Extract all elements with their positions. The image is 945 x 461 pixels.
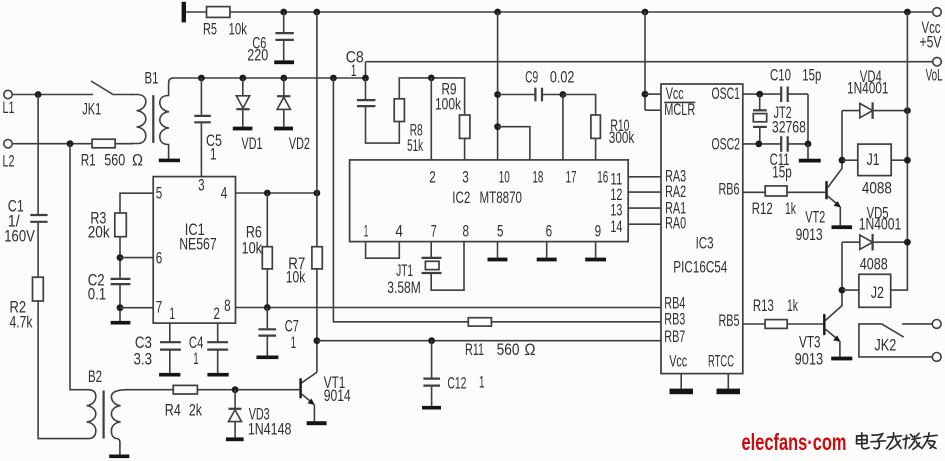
wire: Vcc pin stub bbox=[645, 93, 661, 95]
svg-text:JK2: JK2 bbox=[874, 336, 896, 354]
resistor R4 bbox=[173, 385, 197, 394]
wire: right vertical from top rail bbox=[891, 12, 908, 290]
svg-text:VT2: VT2 bbox=[805, 209, 825, 227]
svg-text:1: 1 bbox=[193, 350, 199, 368]
ground: VD2 bbox=[274, 127, 293, 131]
wire: IC1 pin6 bbox=[120, 257, 153, 259]
svg-text:L2: L2 bbox=[3, 153, 15, 171]
svg-text:15p: 15p bbox=[802, 66, 821, 84]
terminal: Vcc +5V bbox=[933, 8, 942, 17]
svg-text:10k: 10k bbox=[286, 269, 306, 287]
svg-text:3: 3 bbox=[462, 169, 469, 187]
ground: C3 bbox=[159, 373, 180, 377]
svg-text:3.58M: 3.58M bbox=[387, 279, 421, 297]
resistor R8 bbox=[394, 99, 404, 122]
node: VT2 collector / J1 junction bbox=[839, 157, 846, 164]
ground: OSC bbox=[799, 159, 821, 163]
diode VD3 bbox=[234, 390, 236, 409]
wire: IC2 pin12 to IC3 RA2 bbox=[628, 191, 661, 193]
capacitor C11 bbox=[780, 136, 782, 152]
ground: VT1 emitter bbox=[307, 421, 327, 425]
svg-text:RB7: RB7 bbox=[664, 328, 685, 346]
svg-text:L1: L1 bbox=[3, 99, 15, 117]
wire: JK1 to B1 primary top bbox=[113, 94, 134, 96]
wire: IC2 pin11 to IC3 RA3 bbox=[628, 176, 661, 178]
svg-text:1: 1 bbox=[210, 146, 217, 164]
transformer B2 secondary bbox=[111, 390, 128, 455]
node: R11 column on rail bbox=[330, 75, 337, 82]
svg-text:C9: C9 bbox=[525, 69, 538, 87]
svg-text:16: 16 bbox=[597, 169, 608, 187]
switch JK2 bbox=[859, 324, 932, 357]
svg-text:4088: 4088 bbox=[860, 256, 888, 274]
node: RB7 line at collector column bbox=[314, 337, 321, 344]
svg-text:Ω: Ω bbox=[525, 341, 536, 359]
svg-text:RB5: RB5 bbox=[719, 312, 740, 330]
svg-text:1: 1 bbox=[351, 62, 357, 80]
svg-text:R13: R13 bbox=[753, 297, 774, 315]
node: pin18 line junction bbox=[494, 123, 501, 130]
resistor R12 bbox=[765, 186, 787, 196]
svg-text:15p: 15p bbox=[772, 164, 792, 182]
wire: IC1 pin5 bbox=[120, 193, 153, 213]
svg-text:18: 18 bbox=[532, 169, 543, 187]
ground: VT2 emitter bbox=[832, 225, 853, 229]
resistor R11 bbox=[468, 318, 491, 326]
svg-text:1N4001: 1N4001 bbox=[847, 80, 889, 98]
node: pin7 junction bbox=[117, 304, 124, 311]
node: VT3 collector / J2 junction bbox=[839, 287, 846, 294]
svg-text:RA2: RA2 bbox=[665, 183, 686, 201]
ground: IC3 Vcc bbox=[670, 389, 694, 395]
transformer B2 primary bbox=[87, 390, 96, 439]
wire: R12 to VT2 base bbox=[787, 191, 825, 193]
logo: Chinese character shao bbox=[903, 433, 921, 449]
svg-text:5: 5 bbox=[497, 222, 504, 240]
wire: top +5V rail bbox=[186, 11, 933, 13]
svg-text:1: 1 bbox=[364, 222, 369, 240]
diode VD1 bbox=[242, 78, 244, 96]
diode VD5 bbox=[842, 241, 907, 243]
svg-text:OSC2: OSC2 bbox=[712, 136, 741, 154]
terminal: JK2 lower bbox=[932, 353, 941, 362]
capacitor C4 bbox=[207, 341, 228, 343]
resistor R1 bbox=[92, 139, 115, 148]
transistor VT3 base bar bbox=[823, 314, 825, 335]
relay J1 bbox=[842, 159, 858, 161]
svg-text:0.1: 0.1 bbox=[88, 286, 107, 304]
svg-text:C10: C10 bbox=[770, 66, 791, 84]
svg-text:560: 560 bbox=[497, 341, 520, 359]
svg-text:PIC16C54: PIC16C54 bbox=[673, 259, 727, 277]
svg-text:10k: 10k bbox=[242, 239, 263, 257]
wire: R11 to IC3 RB3 bbox=[491, 321, 661, 323]
svg-text:9014: 9014 bbox=[324, 387, 351, 405]
crystal JT2 bbox=[759, 94, 761, 110]
svg-text:IC2: IC2 bbox=[452, 189, 470, 207]
svg-text:32768: 32768 bbox=[772, 118, 806, 136]
svg-text:3.3: 3.3 bbox=[134, 351, 153, 369]
transistor VT2 collector bbox=[828, 111, 842, 188]
transformer B1 core bbox=[152, 95, 154, 143]
svg-text:7: 7 bbox=[431, 222, 437, 240]
svg-text:4: 4 bbox=[395, 222, 403, 240]
wire: audio rail y78 bbox=[172, 77, 366, 79]
ground: C7 bbox=[256, 356, 278, 360]
transistor VT1 base bar bbox=[299, 378, 301, 398]
node: IC2 pin10 column junction on top rail bbox=[494, 9, 501, 16]
node: R7 column junction on top rail bbox=[313, 9, 320, 16]
svg-text:9013: 9013 bbox=[796, 226, 823, 244]
capacitor C12 bbox=[431, 341, 433, 379]
svg-text:VD2: VD2 bbox=[289, 135, 310, 153]
node: pin17 column junction bbox=[560, 91, 567, 98]
svg-text:B2: B2 bbox=[88, 368, 102, 386]
svg-text:Vcc: Vcc bbox=[669, 353, 687, 371]
ground: C12 bbox=[422, 406, 441, 410]
svg-text:300k: 300k bbox=[609, 129, 635, 147]
svg-text:51k: 51k bbox=[407, 137, 423, 155]
node: IC3 Vcc column junction on top rail bbox=[642, 9, 649, 16]
capacitor C6 bbox=[283, 12, 285, 32]
svg-text:4.7k: 4.7k bbox=[10, 314, 34, 332]
svg-text:7: 7 bbox=[156, 298, 163, 316]
transformer B1 primary bbox=[131, 95, 146, 144]
wire: IC3 Vcc/MCLR column from top rail bbox=[644, 12, 646, 110]
svg-text:1N4148: 1N4148 bbox=[248, 421, 292, 439]
svg-text:C12: C12 bbox=[447, 374, 466, 392]
ground: VD3 bbox=[226, 437, 244, 441]
wire: R10 to pin16 bbox=[595, 138, 597, 160]
ground: VD1 bbox=[233, 127, 253, 131]
wire: IC2 pin3 stub from R9 bbox=[464, 138, 466, 160]
wire: RB3 column from rail to R11 line bbox=[333, 78, 468, 322]
svg-text:B1: B1 bbox=[145, 70, 159, 88]
wire: R7 column from top rail bbox=[316, 12, 318, 247]
wire: MCLR pin stub bbox=[645, 109, 661, 111]
svg-text:13: 13 bbox=[610, 201, 622, 219]
IC IC3 PIC16C54 box bbox=[661, 84, 743, 374]
wire: C10 corner down to OSC2 line bbox=[807, 94, 809, 144]
diode VD2 bbox=[283, 78, 285, 96]
svg-text:20k: 20k bbox=[88, 224, 111, 242]
wire: IC2 pin14 to IC3 RA0 bbox=[628, 223, 661, 225]
wire: R1 to B1 primary bottom bbox=[115, 143, 133, 145]
rail-end bar top left bbox=[182, 2, 186, 23]
wire: IC1 pin4 line bbox=[236, 192, 317, 194]
wire: IC1 pin8 line to RB4 bbox=[236, 307, 662, 309]
svg-text:9013: 9013 bbox=[795, 350, 824, 368]
wire: IC1 pin1 to C3 bbox=[169, 323, 171, 342]
resistor R3 bbox=[115, 213, 127, 237]
node: C5 on rail bbox=[198, 75, 205, 82]
node: R6 top bbox=[264, 190, 271, 197]
ground: IC2 pin9 bbox=[585, 258, 606, 262]
svg-text:6: 6 bbox=[156, 250, 163, 268]
ground: IC3 RTCC bbox=[717, 389, 741, 395]
switch JK1 lever bbox=[91, 81, 113, 94]
capacitor C3 bbox=[160, 341, 181, 343]
capacitor C9 bbox=[498, 94, 536, 96]
transistor VT2 base bar bbox=[825, 181, 827, 199]
svg-text:+5V: +5V bbox=[920, 34, 942, 52]
op-amp IC1 NE567 box bbox=[153, 177, 235, 324]
resistor R2 bbox=[33, 277, 44, 301]
svg-text:R11: R11 bbox=[465, 341, 484, 359]
node: pin6 junction bbox=[117, 254, 124, 261]
svg-text:VoL: VoL bbox=[926, 67, 943, 85]
diode VD4 bbox=[842, 110, 907, 112]
svg-text:1: 1 bbox=[479, 373, 485, 391]
node: VD1 on rail bbox=[239, 75, 246, 82]
svg-text:R4: R4 bbox=[165, 402, 181, 420]
node: IC2 pin2 column junction bbox=[428, 75, 435, 82]
svg-text:1k: 1k bbox=[787, 297, 798, 315]
svg-text:6: 6 bbox=[546, 222, 553, 240]
node: J1 on right vertical bbox=[904, 157, 911, 164]
svg-text:14: 14 bbox=[610, 218, 622, 236]
transistor VT2 emitter bbox=[828, 196, 840, 206]
wire: pin9 ground stub bbox=[595, 242, 597, 258]
wire: R13 to VT3 base bbox=[787, 323, 823, 325]
svg-text:RA0: RA0 bbox=[665, 214, 686, 232]
transistor VT1 emitter bbox=[302, 394, 314, 404]
svg-text:2k: 2k bbox=[189, 402, 203, 420]
svg-text:10k: 10k bbox=[229, 21, 248, 39]
svg-text:elecfans·com: elecfans·com bbox=[742, 429, 847, 455]
node: Vcc/MCLR junction bbox=[642, 91, 649, 98]
wire: pins 1-4 bracket bbox=[366, 242, 400, 259]
svg-text:3: 3 bbox=[198, 177, 205, 195]
svg-text:Ω: Ω bbox=[132, 151, 143, 169]
capacitor C7 bbox=[266, 308, 268, 330]
wire: IC3 bottom Vcc ground stub bbox=[680, 374, 682, 389]
crystal JT1 bbox=[430, 242, 432, 258]
wire: C9 line to R10 bbox=[563, 95, 596, 116]
svg-text:JK1: JK1 bbox=[82, 101, 101, 119]
node: VD4 on right vertical bbox=[904, 107, 911, 114]
node: R6 bottom / C7 bbox=[264, 304, 271, 311]
svg-text:J2: J2 bbox=[871, 284, 884, 302]
svg-text:C7: C7 bbox=[285, 318, 299, 336]
ground: C2/pin7 bbox=[111, 321, 131, 325]
node: OSC2/ground junction bbox=[805, 141, 812, 148]
svg-text:4: 4 bbox=[221, 185, 228, 203]
node: VD3 junction bbox=[232, 386, 239, 393]
wire: R8/R9 top segment bbox=[399, 78, 464, 115]
ground: C4 bbox=[207, 373, 228, 377]
svg-text:1: 1 bbox=[291, 334, 297, 352]
wire: R7 bottom to VT1 collector bbox=[316, 269, 318, 372]
ground: C6 bbox=[274, 60, 294, 64]
wire: R3 to pin6 node bbox=[119, 237, 121, 278]
wire: IC2 pin13 to IC3 RA1 bbox=[628, 207, 661, 209]
node: C9 line junction bbox=[494, 91, 501, 98]
wire: IC2 pin2 stub bbox=[430, 78, 432, 160]
svg-text:0.02: 0.02 bbox=[550, 69, 575, 87]
svg-text:RTCC: RTCC bbox=[708, 353, 734, 371]
wire: VoL line bbox=[366, 61, 933, 63]
transistor VT1 collector bbox=[302, 372, 317, 383]
wire: pin18 link bbox=[498, 127, 530, 160]
svg-text:MT8870: MT8870 bbox=[480, 189, 523, 207]
transistor VT3 collector bbox=[826, 242, 843, 320]
node: VD2 on rail bbox=[280, 75, 287, 82]
svg-text:R5: R5 bbox=[203, 21, 217, 39]
resistor R6 bbox=[266, 193, 268, 247]
resistor R10 bbox=[591, 115, 601, 138]
wire: B2 secondary to R4 bbox=[126, 389, 173, 391]
wire: RB5 line bbox=[743, 323, 765, 325]
transformer B1 secondary bbox=[160, 78, 174, 159]
svg-text:2: 2 bbox=[213, 305, 220, 323]
transformer B2 core bbox=[102, 391, 104, 439]
svg-text:NE567: NE567 bbox=[179, 236, 217, 254]
terminal: JK2 upper bbox=[932, 320, 941, 329]
node: JT2 top junction bbox=[756, 91, 763, 98]
svg-text:1N4001: 1N4001 bbox=[859, 216, 902, 234]
resistor R5 bbox=[207, 7, 230, 18]
svg-text:5: 5 bbox=[156, 185, 163, 203]
resistor R7 bbox=[312, 247, 322, 269]
node: L1/C1 junction bbox=[35, 91, 42, 98]
terminal: VoL bbox=[933, 57, 942, 66]
svg-text:R12: R12 bbox=[752, 200, 773, 218]
node: L2/B2 junction bbox=[67, 140, 74, 147]
wire: IC1 pin2 to C4 bbox=[217, 323, 219, 342]
capacitor C5 bbox=[200, 78, 202, 115]
relay J2 bbox=[842, 289, 859, 291]
node: C12 junction bbox=[428, 337, 435, 344]
svg-text:2: 2 bbox=[429, 169, 436, 187]
svg-text:MCLR: MCLR bbox=[664, 101, 695, 119]
svg-text:220: 220 bbox=[247, 46, 268, 64]
svg-text:IC3: IC3 bbox=[696, 234, 714, 252]
wire: pin5 ground stub bbox=[497, 242, 499, 258]
svg-text:8: 8 bbox=[224, 297, 231, 315]
wire: L2 to R1 bbox=[12, 143, 92, 145]
IC IC2 MT8870 box bbox=[350, 160, 629, 242]
svg-text:4088: 4088 bbox=[862, 180, 892, 198]
svg-text:JT1: JT1 bbox=[396, 262, 413, 280]
wire: IC3 RTCC ground stub bbox=[727, 374, 729, 389]
svg-text:VD1: VD1 bbox=[242, 135, 263, 153]
node: right vertical junction on top rail bbox=[904, 9, 911, 16]
svg-text:1: 1 bbox=[170, 305, 176, 323]
node: C6 junction on top rail bbox=[280, 9, 287, 16]
logo: Chinese character fa bbox=[887, 433, 902, 450]
svg-text:17: 17 bbox=[566, 169, 577, 187]
transistor VT3 emitter bbox=[826, 329, 839, 340]
wire: L1 to JK1 bbox=[12, 94, 93, 96]
svg-text:8: 8 bbox=[463, 222, 470, 240]
svg-text:R1: R1 bbox=[81, 151, 96, 169]
wire: IC1 pin7 bbox=[120, 307, 153, 309]
node: pin4/R7 column bbox=[314, 190, 321, 197]
svg-text:VT3: VT3 bbox=[799, 334, 821, 352]
svg-text:160V: 160V bbox=[4, 228, 35, 246]
logo: Chinese character zi bbox=[871, 434, 886, 449]
capacitor C8 bbox=[365, 78, 367, 99]
ground: IC2 pin6 bbox=[537, 258, 557, 262]
terminal L2 bbox=[4, 140, 12, 148]
svg-text:RB3: RB3 bbox=[664, 311, 685, 329]
wire: pin17 stub bbox=[562, 95, 564, 160]
wire: RB7 line bbox=[317, 340, 661, 342]
svg-text:OSC1: OSC1 bbox=[712, 85, 741, 103]
wire: L2 node to B2 primary top bbox=[70, 144, 88, 390]
svg-text:1k: 1k bbox=[785, 200, 796, 218]
wire: OSC ground stub bbox=[807, 144, 809, 159]
ground: B2 secondary bbox=[109, 455, 129, 459]
wire: pin6 ground stub bbox=[546, 242, 548, 258]
wire: RB6 line bbox=[743, 191, 765, 193]
logo: Chinese character you bbox=[922, 433, 937, 449]
logo: Chinese characters dian bbox=[857, 433, 938, 450]
wire: R2 to B2 primary bottom bbox=[38, 301, 88, 439]
svg-text:RB6: RB6 bbox=[719, 181, 740, 199]
resistor R13 bbox=[765, 320, 787, 329]
node: C8 junction on rail bbox=[362, 75, 369, 82]
capacitor C10 bbox=[780, 86, 782, 102]
svg-text:J1: J1 bbox=[867, 151, 880, 169]
ground: B1 secondary bbox=[159, 159, 180, 163]
wire: OSC2 line bbox=[743, 143, 781, 145]
wire: VoL riser from C8 node bbox=[365, 62, 367, 78]
capacitor C2 bbox=[111, 278, 131, 280]
wire: pin10 column from top rail bbox=[497, 12, 499, 160]
node: JT2 bottom junction bbox=[755, 141, 762, 148]
ground: IC2 pin5 bbox=[488, 258, 508, 262]
svg-text:560: 560 bbox=[104, 151, 125, 169]
svg-text:9: 9 bbox=[595, 222, 602, 240]
wire: OSC1 line bbox=[743, 93, 781, 95]
svg-text:C3: C3 bbox=[135, 334, 152, 352]
ground: VT3 emitter bbox=[831, 357, 852, 361]
capacitor C1 bbox=[37, 95, 39, 216]
wire: VT1 base line bbox=[197, 389, 299, 391]
svg-text:100k: 100k bbox=[435, 95, 462, 113]
terminal L1 bbox=[4, 90, 12, 98]
node: VD5 on right vertical bbox=[904, 239, 911, 246]
svg-text:10: 10 bbox=[499, 169, 510, 187]
resistor R9 bbox=[460, 115, 470, 138]
